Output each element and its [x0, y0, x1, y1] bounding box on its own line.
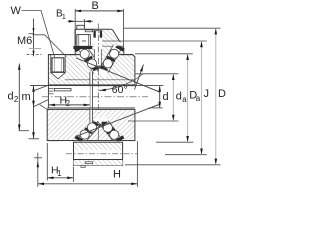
ball, lower left row inner — [87, 123, 96, 132]
d2 extension line bottom — [19, 130, 29, 132]
lower section bottom edge — [47, 140, 135, 142]
svg-text:B: B — [92, 0, 99, 12]
lower rib (hatched) — [87, 125, 113, 140]
svg-text:1: 1 — [57, 169, 62, 178]
upper row cage bar left-mid — [84, 56, 93, 63]
svg-text:1: 1 — [62, 12, 66, 21]
lower right mouth seal (dark) — [115, 135, 124, 143]
lower raceway edge left-inner — [86, 124, 102, 142]
Da dimension line — [187, 54, 189, 142]
mirrored ring band (hatched) — [74, 160, 123, 166]
lubrication duct walls — [93, 38, 95, 66]
lubrication hole thread marks — [94, 31, 96, 38]
contact line upper row — [76, 58, 160, 92]
shoulder line under upper row — [65, 79, 135, 81]
svg-text:d: d — [8, 91, 14, 103]
leader line for W — [22, 11, 55, 58]
fixing screw thread band — [73, 46, 92, 49]
lower left mouth seal (dark) — [74, 135, 83, 143]
shaft washer lower section (hatched) — [47, 109, 135, 140]
H extension left — [37, 153, 39, 187]
svg-text:2: 2 — [14, 95, 19, 104]
m leader to groove upper — [34, 85, 49, 91]
m dimension line — [33, 86, 35, 139]
contact line lower row — [76, 105, 159, 137]
outer ring bottom right line — [117, 45, 124, 47]
groove seam lower — [47, 108, 135, 110]
lower row cage bar right-end — [101, 121, 107, 126]
D dimension line — [215, 28, 217, 165]
H1 dimension line — [47, 177, 73, 179]
flange top dashed extension — [27, 54, 42, 56]
flange face edge across bore — [47, 86, 49, 108]
lubrication hole bore (white) — [94, 31, 103, 49]
ball, upper left row inner — [87, 59, 96, 68]
upper raceway edge left-outer — [78, 49, 94, 73]
lower raceway gap left (white) — [82, 122, 98, 140]
svg-text:H: H — [113, 169, 121, 181]
H extension right — [136, 141, 138, 187]
da dimension line — [172, 74, 174, 121]
H2 dimension line — [49, 104, 90, 106]
washer top right surface line — [121, 54, 133, 56]
B1 extension line — [84, 19, 86, 28]
fixing screw counterbore (white) — [76, 30, 92, 46]
lower cone flank left — [94, 122, 96, 125]
d dimension line — [159, 86, 161, 108]
outer ring cross-section (hatched) — [75, 29, 124, 56]
lower cone flank right — [102, 122, 106, 125]
m leader to washer corner — [40, 105, 48, 110]
upper raceway edge right-outer — [108, 48, 122, 73]
da bottom extension — [128, 120, 178, 122]
groove marks on flange face — [48, 88, 53, 90]
mirrored washer notch — [81, 166, 85, 168]
ball, lower right row inner — [103, 123, 112, 132]
60deg arc arrowhead — [100, 89, 106, 92]
D top extension — [124, 27, 221, 29]
upper raceway gap left (white) — [82, 47, 98, 71]
Da top extension — [135, 53, 193, 55]
Da bottom extension — [156, 141, 193, 143]
mirrored screw axis (dash-dot) — [66, 153, 137, 155]
mirrored counterbore step — [85, 162, 93, 164]
H1 extension right — [72, 167, 74, 182]
ball, upper right row outer — [110, 49, 119, 58]
d bottom extension — [149, 107, 163, 109]
svg-text:2: 2 — [66, 99, 71, 108]
bore void (white) — [49, 86, 90, 107]
d2 dimension line — [18, 64, 20, 131]
screw plug body — [52, 58, 64, 72]
svg-text:a: a — [182, 95, 187, 104]
B1 dimension line — [68, 20, 94, 22]
svg-text:60°: 60° — [112, 84, 128, 96]
upper row cage bar right-mid — [106, 56, 115, 63]
m leader to groove lower — [34, 100, 49, 107]
svg-text:m: m — [22, 91, 31, 103]
lower raceway edge right-outer — [108, 121, 122, 140]
da top extension — [135, 73, 179, 75]
mirrored raceway band (hatched) — [74, 142, 123, 150]
outer ring central rib (hatched) — [87, 46, 113, 66]
mirrored screw body outline — [74, 142, 123, 165]
J dimension line — [201, 41, 203, 155]
ball, lower right row outer — [110, 130, 119, 139]
flange lube hole walls — [50, 55, 52, 73]
ball, upper right row inner — [103, 59, 112, 68]
drill cone flank right — [101, 66, 105, 69]
hatch patch upper right mouth — [114, 43, 119, 46]
M6 gray mark — [29, 48, 41, 50]
60deg leg line — [135, 65, 144, 90]
flange top surface line — [48, 54, 78, 56]
60deg arc — [99, 74, 144, 91]
H dimension line — [38, 183, 138, 185]
drill point cone below plug — [51, 73, 65, 79]
groove seam upper — [48, 83, 134, 85]
upper raceway edge left-inner — [86, 44, 102, 68]
upper raceway edge right-inner — [100, 44, 114, 69]
flange lube hole (white) — [51, 55, 65, 72]
J bottom extension — [165, 154, 207, 156]
upper row cage bar left-end — [93, 66, 99, 71]
m extension line bottom — [29, 138, 40, 140]
upper left mouth seal (dark) — [74, 45, 83, 53]
D bottom extension — [125, 164, 221, 166]
d top extension — [135, 85, 163, 87]
drill cone flank left — [92, 66, 96, 69]
60deg leg arrowhead — [140, 66, 143, 72]
washer lube duct walls — [89, 72, 91, 123]
fixing screw head — [77, 35, 91, 47]
lube hole axis vertical (dash-dot) — [97, 24, 99, 113]
B extension line right — [123, 9, 125, 47]
washer lube duct (white) — [90, 72, 92, 123]
upper right mouth seal (dark) — [115, 44, 124, 51]
svg-text:W: W — [11, 5, 22, 17]
bore surface top line — [30, 85, 135, 87]
B dimension line — [75, 10, 124, 12]
bore surface bottom line — [47, 107, 135, 109]
H1 extension left — [46, 143, 48, 181]
counterbore step — [85, 30, 93, 32]
M6 extension line — [29, 33, 35, 35]
bearing axis centerline (dash-dot) — [42, 96, 148, 98]
svg-text:d: d — [163, 91, 169, 103]
lower raceway gap right (white) — [104, 122, 118, 140]
lower duct line — [97, 127, 99, 141]
M6 dimension line — [33, 19, 35, 57]
svg-text:D: D — [218, 88, 226, 100]
shaft washer upper section (hatched) — [48, 55, 134, 86]
lubrication groove slot — [54, 88, 71, 91]
svg-text:a: a — [196, 94, 201, 103]
washer above housing surface (hatched) — [77, 25, 85, 29]
lower row cage bar left-end — [93, 121, 99, 126]
lower raceway edge left-outer — [78, 120, 94, 138]
lower drill cone — [95, 122, 100, 126]
upper raceway gap right (white) — [104, 46, 118, 71]
J top extension — [82, 40, 86, 42]
lower row cage bar right-mid — [107, 127, 116, 134]
M6 leader to plug — [33, 35, 65, 55]
ball, lower left row outer — [80, 130, 89, 139]
upper row cage bar right-end — [101, 66, 108, 71]
lubrication duct (white) — [94, 38, 101, 66]
ball, upper left row outer — [80, 49, 89, 58]
B extension line left — [74, 9, 76, 29]
svg-text:J: J — [204, 88, 210, 100]
outer ring left edge line — [74, 29, 76, 46]
lower row cage bar left-mid — [84, 127, 93, 134]
lubrication duct drill cone — [95, 66, 100, 71]
gap white band below lower section — [60, 140, 135, 143]
svg-text:d: d — [176, 91, 182, 103]
lower raceway edge right-inner — [100, 124, 114, 142]
svg-text:M6: M6 — [17, 35, 32, 47]
